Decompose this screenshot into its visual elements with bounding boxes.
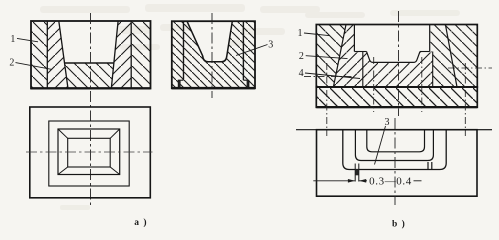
thick plate bottom edge [316, 106, 477, 108]
svg-text:1: 1 [10, 34, 15, 45]
leader for bottom view label 3 [375, 126, 386, 165]
middle cavity (white) [187, 21, 232, 62]
hatch: right die block [445, 25, 477, 88]
shallow cavity profile [367, 52, 421, 63]
middle cavity right wall [208, 21, 232, 62]
middle block outline [172, 21, 255, 88]
insert boundary right [242, 21, 244, 80]
hatch: whole middle block [172, 21, 255, 88]
centerline of figure a [90, 13, 92, 206]
leader for b label 2 [306, 56, 348, 59]
dimension 0.3-0.4 [313, 179, 421, 183]
recess floor ledges [354, 51, 366, 53]
cavity floor [65, 62, 114, 64]
insert taper boundary left [333, 25, 346, 88]
b right pin centerline vertical [464, 63, 466, 136]
bottom view outer rect [317, 130, 478, 197]
hatch region: insert core below cavity floor [65, 63, 114, 89]
b block outline [316, 25, 477, 88]
leader for b label 1 [304, 33, 330, 36]
plan cavity corner diagonals [58, 129, 68, 138]
hatch: bottom insert under cavity [363, 52, 433, 88]
svg-text:a ): a ) [134, 217, 147, 228]
leader for label 2 [16, 63, 53, 70]
protruding tab left [354, 164, 356, 182]
protruding tab right [427, 162, 429, 170]
b left screw centerline vertical [326, 63, 328, 136]
recess (white) [354, 25, 429, 52]
leader for label 1 [17, 38, 38, 41]
b inner screw centerline right [421, 57, 423, 112]
svg-text:2: 2 [9, 57, 14, 68]
hatch: left insert flank [333, 25, 362, 88]
plan cavity floor rect [68, 138, 111, 167]
b right pin centerline horizontal [448, 67, 492, 69]
insert boundary left [183, 21, 185, 80]
cavity left wall [59, 21, 68, 89]
svg-text:2: 2 [299, 51, 304, 62]
hatch region: right strip of die block [131, 21, 150, 89]
bottom view centerline [394, 118, 396, 205]
insert boundary line left [46, 21, 48, 89]
recess right wall [429, 25, 431, 52]
svg-text:b ): b ) [392, 219, 406, 230]
middle cavity left wall [187, 21, 208, 62]
bottom insert boundary left [362, 52, 364, 88]
base plate outline [316, 87, 477, 107]
insert taper boundary right [445, 25, 457, 88]
leader for label 3 [236, 45, 268, 56]
hatch region: left insert flank [47, 21, 68, 89]
plan horizontal centerline [26, 151, 153, 153]
plan insert rect [49, 121, 129, 186]
insert boundary line right [130, 21, 132, 89]
die block outline [31, 21, 151, 89]
right foot step [243, 79, 249, 81]
recess left wall [353, 25, 355, 52]
svg-text:1: 1 [298, 28, 303, 39]
shallow cavity (white) [367, 52, 421, 63]
left foot step [178, 79, 184, 81]
cavity (white) [59, 21, 118, 63]
block/plate joint (thick) [316, 86, 477, 88]
top edge extensions [296, 129, 317, 131]
hatch: right insert flank [430, 25, 457, 88]
b left screw centerline horizontal [304, 75, 353, 77]
svg-text:4: 4 [299, 68, 304, 79]
hatch region: right insert flank [111, 21, 131, 89]
contour U2 (cavity opening) [355, 130, 433, 161]
hatch: left die block [316, 25, 346, 88]
plan cavity top rect [58, 129, 120, 175]
hatch region: left strip of die block [31, 21, 47, 89]
bottom insert boundary right [432, 52, 434, 88]
thick bottom edge [31, 87, 151, 89]
b inner screw centerline left [373, 57, 375, 112]
contour U3 (cavity floor) [367, 130, 425, 152]
scan bleed-through ghosts [40, 4, 460, 210]
leader for b label 4 [305, 73, 360, 79]
contour U1 (insert pocket) [343, 130, 446, 170]
svg-text:3: 3 [268, 39, 273, 50]
svg-text:0.3—0.4: 0.3—0.4 [369, 176, 412, 188]
b main centerline [398, 11, 400, 116]
cavity right wall [111, 21, 118, 89]
thick bottom edge [172, 87, 255, 90]
middle centerline [211, 13, 213, 98]
hatch: base plate [316, 87, 477, 107]
plan outer rect [30, 107, 151, 198]
